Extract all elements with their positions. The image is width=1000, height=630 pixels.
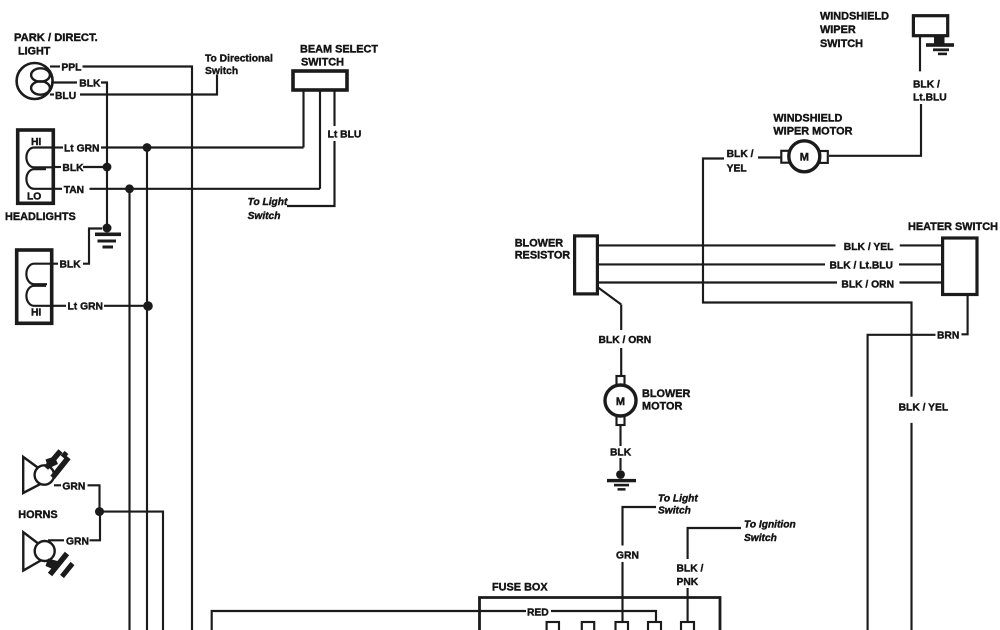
svg-text:RED: RED bbox=[527, 608, 549, 619]
svg-text:HI: HI bbox=[31, 137, 41, 148]
wire BLK/LtBLU wiper switch to wiper motor bbox=[829, 36, 921, 156]
svg-text:To Light: To Light bbox=[248, 197, 288, 208]
lamp L1 park/direct light bbox=[17, 63, 53, 99]
svg-text:Switch: Switch bbox=[205, 66, 238, 77]
svg-text:BLK / YEL: BLK / YEL bbox=[899, 403, 949, 414]
wire horn feed to bottom bbox=[100, 512, 164, 630]
svg-text:Switch: Switch bbox=[248, 211, 281, 222]
svg-text:GRN: GRN bbox=[62, 481, 85, 492]
svg-text:PNK: PNK bbox=[677, 577, 699, 588]
horn HORN2 bbox=[23, 532, 72, 576]
svg-text:HORNS: HORNS bbox=[18, 509, 57, 521]
wire PPL park light to directional switch feed bbox=[50, 67, 192, 630]
svg-text:Lt GRN: Lt GRN bbox=[68, 302, 103, 313]
switch S1 beam select switch bbox=[293, 71, 347, 90]
svg-text:Lt GRN: Lt GRN bbox=[64, 143, 99, 154]
svg-text:RESISTOR: RESISTOR bbox=[515, 250, 571, 262]
svg-text:BLK / YEL: BLK / YEL bbox=[844, 242, 894, 253]
svg-text:HI: HI bbox=[31, 308, 41, 319]
svg-text:TAN: TAN bbox=[64, 185, 84, 196]
switch S2 heater switch bbox=[943, 238, 977, 295]
svg-text:WINDSHIELD: WINDSHIELD bbox=[773, 112, 842, 124]
svg-text:BEAM SELECT: BEAM SELECT bbox=[300, 44, 378, 56]
motor M2 windshield wiper motor bbox=[781, 141, 828, 172]
node junction Lt GRN / vertical feed bbox=[143, 143, 152, 152]
svg-text:LO: LO bbox=[27, 192, 41, 203]
wire BLK/YEL wiper motor feed bbox=[703, 158, 912, 630]
svg-text:To Directional: To Directional bbox=[205, 54, 273, 65]
ground G3 wiper switch bbox=[926, 36, 954, 55]
svg-text:BLK /: BLK / bbox=[727, 149, 754, 160]
node junction BLK bus bbox=[103, 163, 112, 172]
headlight H1 (HI/LO) bbox=[18, 130, 54, 203]
fuse F5 bbox=[681, 622, 694, 630]
wire GRN horn1 bbox=[54, 485, 100, 511]
svg-text:FUSE BOX: FUSE BOX bbox=[492, 582, 548, 594]
svg-text:BLK / Lt.BLU: BLK / Lt.BLU bbox=[830, 261, 894, 272]
svg-text:BLOWER: BLOWER bbox=[642, 388, 691, 400]
svg-text:HEATER SWITCH: HEATER SWITCH bbox=[908, 221, 998, 233]
fuse F3 bbox=[616, 622, 629, 630]
fuse box FB1 bbox=[480, 598, 721, 630]
wire BLK/ORN blower resistor to blower motor bbox=[597, 287, 621, 376]
wire BRN heater switch feed bbox=[868, 295, 968, 630]
svg-text:MOTOR: MOTOR bbox=[642, 401, 682, 413]
svg-text:Switch: Switch bbox=[744, 533, 777, 544]
svg-text:HEADLIGHTS: HEADLIGHTS bbox=[5, 211, 76, 223]
wire beam select pin3 Lt BLU to light switch bbox=[287, 90, 335, 206]
svg-text:WINDSHIELD: WINDSHIELD bbox=[820, 11, 889, 23]
node junction TAN / vertical feed bbox=[125, 184, 134, 193]
wire RED battery feed corner bbox=[212, 611, 526, 630]
ground G1 headlights bbox=[95, 224, 121, 249]
wire BLK/ORN blower resistor to heater switch bbox=[597, 281, 942, 283]
wire vertical TAN feed to bottom bbox=[128, 189, 130, 630]
svg-text:LIGHT: LIGHT bbox=[18, 46, 51, 58]
svg-text:To Light: To Light bbox=[658, 494, 698, 505]
svg-text:YEL: YEL bbox=[727, 164, 747, 175]
wire BLK/PNK ignition switch feed to fuse box bbox=[688, 528, 741, 622]
switch S3 windshield wiper switch bbox=[913, 16, 947, 36]
svg-text:SWITCH: SWITCH bbox=[301, 57, 344, 69]
wire BLK park light to ground bbox=[51, 83, 107, 229]
svg-text:BLK / ORN: BLK / ORN bbox=[599, 335, 652, 346]
wire BLK headlight2 to ground bbox=[52, 229, 102, 264]
svg-text:BLK: BLK bbox=[79, 78, 101, 89]
fuse F2 bbox=[582, 622, 594, 630]
fuse F4 bbox=[648, 622, 661, 630]
svg-text:PARK / DIRECT.: PARK / DIRECT. bbox=[14, 32, 98, 44]
fuse F1 bbox=[547, 622, 559, 630]
wire RED into fuse box bbox=[551, 611, 656, 622]
wire BLK blower motor to ground bbox=[619, 425, 621, 470]
wire BLU park light to directional switch bbox=[50, 75, 217, 95]
svg-text:WIPER MOTOR: WIPER MOTOR bbox=[773, 126, 852, 138]
svg-text:BLK: BLK bbox=[610, 448, 632, 459]
ground G2 blower motor bbox=[607, 470, 636, 491]
headlight H2 (HI) bbox=[17, 250, 52, 323]
wire Lt GRN headlight1 to beam select bbox=[53, 146, 303, 148]
wire beam select pin2 to TAN bus bbox=[319, 90, 321, 189]
svg-text:PPL: PPL bbox=[61, 62, 81, 73]
svg-text:GRN: GRN bbox=[66, 536, 89, 547]
svg-text:Switch: Switch bbox=[658, 506, 691, 517]
svg-text:WIPER: WIPER bbox=[820, 24, 856, 36]
node junction horns bbox=[95, 507, 104, 516]
node junction headlight2 Lt GRN bbox=[143, 301, 153, 311]
svg-text:BLOWER: BLOWER bbox=[515, 237, 564, 249]
wire beam select pin1 to Lt GRN bus bbox=[302, 90, 304, 148]
svg-text:To Ignition: To Ignition bbox=[744, 520, 796, 531]
horn HORN1 bbox=[23, 451, 68, 493]
svg-text:BLK: BLK bbox=[62, 163, 84, 174]
svg-text:BLK /: BLK / bbox=[913, 80, 940, 91]
svg-text:BLK / ORN: BLK / ORN bbox=[841, 280, 894, 291]
wire BLK/YEL blower resistor to heater switch bbox=[597, 244, 942, 246]
svg-text:BLK /: BLK / bbox=[677, 564, 704, 575]
svg-text:M: M bbox=[800, 152, 809, 164]
resistor R1 blower resistor bbox=[575, 236, 598, 294]
svg-text:M: M bbox=[616, 396, 625, 408]
svg-text:Lt BLU: Lt BLU bbox=[328, 130, 362, 141]
wire GRN horn2 bbox=[48, 512, 100, 541]
svg-text:BLU: BLU bbox=[55, 91, 76, 102]
svg-text:BRN: BRN bbox=[937, 330, 959, 341]
svg-text:BLK: BLK bbox=[60, 260, 82, 271]
wire TAN headlight1 to beam select bbox=[53, 188, 320, 190]
wire BLK/LtBLU blower resistor to heater switch bbox=[597, 263, 942, 265]
wire Lt GRN headlight2 to feed bbox=[52, 305, 148, 307]
svg-text:GRN: GRN bbox=[616, 551, 639, 562]
motor M1 blower motor bbox=[605, 376, 636, 425]
wire GRN light switch feed to fuse box bbox=[623, 507, 657, 622]
svg-text:SWITCH: SWITCH bbox=[820, 38, 863, 50]
wire vertical Lt GRN feed to bottom bbox=[146, 148, 148, 630]
wire BLK headlight1 to ground bus bbox=[53, 166, 107, 168]
svg-text:Lt.BLU: Lt.BLU bbox=[913, 93, 947, 104]
